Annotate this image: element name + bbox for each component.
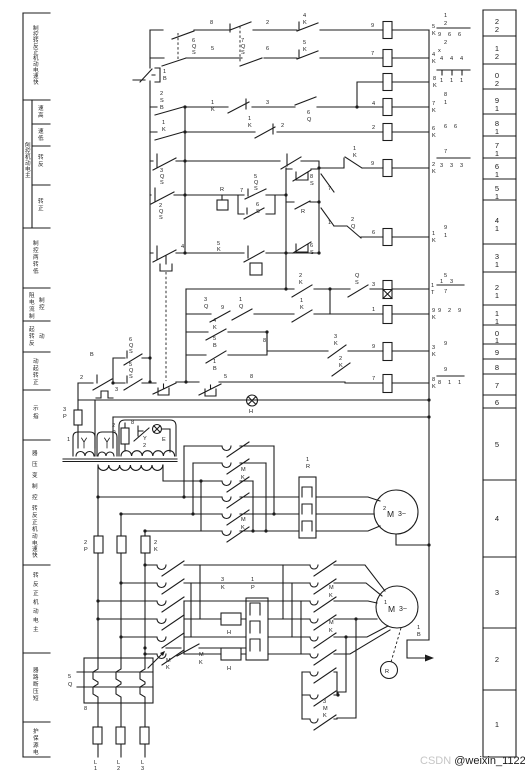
- svg-text:转: 转: [38, 153, 44, 161]
- contact 4K: [297, 22, 318, 31]
- label L1: [94, 760, 97, 772]
- svg-text:1: 1: [417, 625, 420, 631]
- svg-text:8: 8: [263, 338, 266, 344]
- coil 5K: [383, 22, 392, 39]
- foot switch contact rung8: [93, 375, 113, 398]
- svg-text:K: K: [432, 238, 436, 244]
- label 1K between rungs: [162, 120, 166, 133]
- svg-text:E: E: [162, 437, 166, 443]
- svg-text:1: 1: [162, 120, 165, 126]
- svg-text:P: P: [112, 430, 116, 436]
- svg-text:K: K: [339, 363, 343, 369]
- label 4K: [303, 13, 307, 26]
- svg-text:M: M: [241, 517, 246, 523]
- reversing link vertical 2: [190, 583, 192, 637]
- svg-text:9: 9: [444, 341, 447, 347]
- svg-text:速: 速: [32, 546, 38, 553]
- svg-text:反: 反: [33, 580, 39, 588]
- label coil 8K: [433, 76, 437, 89]
- svg-text:机: 机: [33, 598, 39, 606]
- motor line D y619: [98, 615, 377, 718]
- wire rung11: [186, 313, 429, 315]
- svg-text:K: K: [300, 305, 304, 311]
- svg-text:1: 1: [444, 233, 447, 239]
- svg-text:4: 4: [432, 52, 435, 58]
- svg-text:2: 2: [112, 423, 115, 429]
- label 2KM: [241, 467, 246, 481]
- svg-text:主: 主: [33, 625, 39, 633]
- svg-text:K: K: [433, 83, 437, 89]
- secondary feed line y497: [98, 496, 299, 498]
- svg-text:1: 1: [67, 437, 70, 443]
- svg-text:5: 5: [444, 273, 447, 279]
- chain rail vertical: [285, 168, 287, 289]
- zone 7: [495, 381, 499, 390]
- svg-text:Y: Y: [143, 436, 147, 442]
- svg-text:P: P: [251, 585, 255, 591]
- riser rung12 to rung11: [329, 289, 331, 314]
- bus L1 left vertical: [149, 30, 151, 382]
- svg-text:P: P: [63, 414, 67, 420]
- svg-text:3: 3: [450, 279, 453, 285]
- svg-text:转: 转: [33, 571, 39, 579]
- svg-text:阻: 阻: [29, 291, 35, 299]
- label MK bypass: [199, 652, 204, 666]
- wire rung9: [186, 332, 267, 355]
- svg-text:1: 1: [372, 307, 375, 313]
- svg-text:7: 7: [432, 101, 435, 107]
- dashed link 7QS: [239, 26, 241, 63]
- svg-text:Q: Q: [307, 117, 312, 123]
- dot L1 358: [111, 356, 151, 384]
- svg-text:1: 1: [495, 104, 499, 113]
- branch contact R level: [286, 201, 319, 209]
- label 6QS: [192, 38, 197, 56]
- svg-text:快: 快: [33, 78, 39, 86]
- svg-text:机: 机: [32, 525, 38, 533]
- svg-text:2: 2: [80, 375, 83, 381]
- label coil 1K: [432, 231, 436, 244]
- svg-text:正: 正: [33, 379, 39, 386]
- label 6QS left: [129, 337, 134, 355]
- svg-text:K: K: [432, 384, 436, 390]
- svg-text:M: M: [323, 706, 328, 712]
- stop button 1 rung8: [153, 383, 176, 395]
- contact 3KM row6: [222, 527, 249, 542]
- wire rung14: [150, 226, 429, 253]
- svg-text:M: M: [329, 585, 334, 591]
- svg-text:CSDN @weixin_112233: CSDN @weixin_112233: [420, 755, 525, 767]
- svg-text:6: 6: [432, 126, 435, 132]
- zone 14: [495, 216, 499, 233]
- coil 9K: [383, 306, 392, 324]
- zone 11: [495, 309, 499, 326]
- svg-text:H: H: [227, 666, 231, 672]
- svg-text:2: 2: [448, 308, 451, 314]
- wire rung8 bottom control line: [78, 382, 429, 383]
- svg-text:1: 1: [440, 279, 443, 285]
- svg-text:1: 1: [495, 224, 499, 233]
- svg-text:3: 3: [450, 163, 453, 169]
- svg-text:6: 6: [495, 398, 499, 407]
- svg-text:6: 6: [310, 243, 313, 249]
- contact 2QS mid rung17: [281, 154, 301, 169]
- label: control transformer / fast motor supply: [32, 450, 38, 559]
- svg-text:H: H: [249, 409, 253, 415]
- svg-text:转: 转: [33, 260, 39, 268]
- svg-text:7: 7: [444, 289, 447, 295]
- connector plug 2: [97, 432, 117, 456]
- svg-text:3: 3: [115, 387, 118, 393]
- drop x95: [94, 400, 96, 448]
- svg-text:5: 5: [303, 40, 306, 46]
- branch travel switch 6S: [293, 242, 311, 253]
- tacho generator BR: [381, 662, 398, 679]
- svg-text:1: 1: [495, 127, 499, 136]
- secondary lead left: [97, 465, 99, 497]
- svg-text:M: M: [387, 509, 394, 519]
- svg-text:S: S: [254, 186, 258, 192]
- label L3: [141, 760, 144, 772]
- svg-text:2: 2: [444, 40, 447, 46]
- svg-text:控: 控: [39, 303, 45, 311]
- local lighting group box: [119, 420, 176, 456]
- svg-text:动: 动: [33, 358, 39, 365]
- contact 1K NC rung18: [255, 124, 275, 138]
- svg-text:K: K: [303, 47, 307, 53]
- svg-text:6: 6: [444, 124, 447, 130]
- svg-text:3: 3: [460, 163, 463, 169]
- label 1K rung17: [353, 146, 357, 159]
- svg-text:2: 2: [154, 540, 157, 546]
- svg-text:R: R: [220, 187, 224, 193]
- brake contact row 719: [302, 715, 337, 730]
- label 6S: [310, 243, 314, 256]
- fuse 1FU-1: [94, 536, 103, 657]
- svg-text:P: P: [84, 547, 88, 553]
- svg-text:H: H: [227, 630, 231, 636]
- wire rung19: [150, 106, 429, 108]
- label 1SB: [163, 69, 167, 82]
- lamp EL: [153, 425, 171, 453]
- svg-text:1: 1: [450, 78, 453, 84]
- svg-text:1: 1: [163, 69, 166, 75]
- label 4KM upper: [329, 585, 334, 599]
- svg-text:短: 短: [33, 694, 39, 702]
- svg-text:1: 1: [248, 116, 251, 122]
- secondary lead right: [163, 465, 201, 481]
- svg-text:制: 制: [33, 239, 39, 247]
- svg-text:6: 6: [266, 46, 269, 52]
- label 1R: [306, 457, 310, 470]
- svg-text:S: S: [192, 50, 196, 56]
- label: forward start: [33, 358, 39, 386]
- arrowhead: [425, 655, 434, 662]
- drop fuse feed x145: [144, 531, 146, 536]
- label 5B rung10: [213, 336, 217, 349]
- svg-text:K: K: [241, 475, 245, 481]
- motor 2M feeds: [316, 497, 380, 531]
- motor 1M: [376, 586, 418, 628]
- svg-text:机: 机: [33, 54, 39, 62]
- chain vertical x319: [318, 168, 320, 253]
- label QS rung12: [355, 273, 360, 286]
- contact 2KM row2: [193, 459, 266, 474]
- label: forward: [38, 197, 44, 212]
- label 6Q: [307, 110, 312, 123]
- zone 1: [495, 720, 499, 729]
- svg-text:K: K: [221, 585, 225, 591]
- svg-text:动: 动: [33, 608, 39, 615]
- wire rung18: [150, 131, 429, 133]
- svg-text:反: 反: [29, 339, 35, 347]
- wire rung20 branch: [357, 82, 429, 107]
- transformer secondary winding: [98, 465, 163, 470]
- contact 5QS lower: [124, 376, 142, 390]
- motor line B y583: [121, 579, 382, 596]
- svg-text:流: 流: [29, 305, 35, 313]
- contact 1B rung9: [206, 351, 226, 363]
- svg-text:K: K: [432, 169, 436, 175]
- phase line y514: [121, 513, 299, 515]
- svg-text:K: K: [432, 133, 436, 139]
- svg-text:转: 转: [33, 371, 39, 379]
- svg-text:示: 示: [33, 405, 39, 412]
- coil 4K: [383, 50, 392, 67]
- svg-text:1: 1: [458, 380, 461, 386]
- label: short-circuit breaker: [33, 667, 39, 702]
- transformer primary winding group3: [121, 450, 175, 456]
- label 5QS left: [129, 362, 134, 380]
- wire rung12: [186, 288, 429, 290]
- label 4K rung11: [213, 318, 217, 331]
- switch pole 3: [140, 658, 145, 703]
- wire rung17: [150, 158, 429, 168]
- svg-text:正: 正: [38, 205, 44, 212]
- svg-text:机: 机: [25, 153, 31, 161]
- svg-text:动: 动: [32, 533, 38, 540]
- crossref table coil 9K: [438, 308, 461, 314]
- label 5K: [303, 40, 307, 53]
- contact 7QS-1: [230, 22, 251, 32]
- label 1B rung9: [213, 359, 217, 372]
- svg-text:S: S: [256, 209, 260, 215]
- svg-text:动: 动: [25, 160, 31, 167]
- contactor loop vertical right1: [273, 446, 275, 514]
- pushbutton 1SB in bus: [133, 68, 160, 82]
- svg-text:控: 控: [32, 493, 38, 501]
- svg-text:1: 1: [94, 766, 97, 772]
- label: fast motor fwd/rev control: [33, 24, 39, 86]
- label 2FU: [112, 423, 116, 436]
- svg-text:1: 1: [448, 380, 451, 386]
- thermal relay 1FR block: [246, 598, 268, 660]
- label: supply protection: [33, 727, 39, 756]
- svg-text:S: S: [241, 50, 245, 56]
- contact 3QS: [153, 154, 176, 170]
- svg-text:4: 4: [181, 244, 184, 250]
- contact 3KM row5: [222, 510, 249, 525]
- svg-text:低: 低: [38, 134, 44, 142]
- label 2Q: [351, 217, 356, 230]
- svg-text:B: B: [160, 105, 164, 111]
- reversing link vertical 3: [183, 601, 185, 654]
- label coil 4K: [432, 52, 436, 65]
- brake group left rail: [301, 672, 303, 719]
- sub rail vertical: [185, 289, 187, 382]
- svg-text:S: S: [129, 374, 133, 380]
- svg-text:指: 指: [33, 412, 39, 420]
- cross link vertical c: [300, 601, 302, 654]
- svg-text:8: 8: [438, 380, 441, 386]
- left function-label column frame: [23, 13, 50, 757]
- right zone-number column frame: [483, 10, 516, 757]
- fuse 3FU drop: [74, 383, 82, 448]
- zone 9: [495, 348, 499, 357]
- switch handle arrow: [148, 652, 164, 668]
- svg-text:器: 器: [32, 450, 38, 457]
- contact 5K: [297, 50, 318, 59]
- contact 2K rung12: [292, 285, 312, 297]
- svg-text:2: 2: [351, 217, 354, 223]
- transformer core: [63, 459, 177, 462]
- svg-text:R: R: [385, 669, 389, 675]
- label 4KM lower: [329, 620, 334, 634]
- svg-text:刨: 刨: [25, 141, 31, 149]
- svg-text:2: 2: [143, 443, 146, 449]
- svg-text:S: S: [310, 181, 314, 187]
- svg-text:9: 9: [438, 308, 441, 314]
- contact 3K rung10: [328, 345, 346, 358]
- svg-text:1: 1: [460, 78, 463, 84]
- svg-text:6: 6: [458, 32, 461, 38]
- svg-text:两: 两: [33, 254, 39, 261]
- supply fuse 2: [116, 727, 125, 744]
- zone 21: [495, 44, 499, 61]
- svg-text:R: R: [301, 209, 305, 215]
- svg-text:电: 电: [33, 66, 39, 74]
- svg-text:1: 1: [444, 100, 447, 106]
- zone 16: [495, 162, 499, 179]
- switch crossbar 1: [77, 671, 153, 673]
- svg-text:S: S: [355, 280, 359, 286]
- zone 22: [495, 17, 499, 34]
- svg-text:T: T: [431, 290, 435, 296]
- zone 5: [495, 440, 499, 449]
- svg-text:B: B: [213, 343, 217, 349]
- svg-text:B: B: [163, 76, 167, 82]
- cross link vertical b: [291, 583, 293, 637]
- svg-text:9: 9: [221, 305, 224, 311]
- svg-text:1: 1: [213, 359, 216, 365]
- zone 20: [495, 71, 499, 88]
- label 3KM brake: [323, 699, 328, 719]
- coil 8K: [383, 74, 392, 91]
- svg-text:3~: 3~: [398, 511, 406, 518]
- svg-text:电: 电: [33, 616, 39, 624]
- fuse 1FU-2: [117, 536, 126, 657]
- svg-text:6: 6: [256, 202, 259, 208]
- svg-text:1: 1: [251, 577, 254, 583]
- label 1K rung11: [300, 298, 304, 311]
- watermark: [420, 755, 525, 767]
- svg-text:保: 保: [33, 734, 39, 742]
- svg-text:K: K: [323, 713, 327, 719]
- motor 2M return: [396, 534, 429, 545]
- contact 7QS-2: [240, 58, 262, 66]
- contact 5QS rung16: [245, 189, 266, 199]
- svg-text:K: K: [329, 593, 333, 599]
- crossref table coil 1T: [440, 273, 453, 285]
- svg-text:控: 控: [33, 246, 39, 254]
- label motor 1M: [384, 600, 407, 614]
- contactor loop vertical left2: [192, 463, 194, 514]
- contact 2Q to coil 1K: [347, 226, 361, 238]
- label 8S: [310, 174, 314, 187]
- svg-text:8: 8: [84, 706, 87, 712]
- svg-text:转: 转: [38, 197, 44, 205]
- svg-text:K: K: [329, 628, 333, 634]
- svg-text:正: 正: [33, 590, 39, 597]
- svg-text:B: B: [417, 632, 421, 638]
- svg-text:2: 2: [160, 91, 163, 97]
- label 5K rung14: [217, 241, 221, 253]
- svg-text:B: B: [90, 352, 94, 358]
- svg-text:K: K: [154, 547, 158, 553]
- transformer primary winding group2: [98, 452, 114, 456]
- label: main motor fwd/rev: [33, 571, 39, 633]
- svg-text:K: K: [248, 123, 252, 129]
- svg-text:5: 5: [213, 336, 216, 342]
- svg-text:2: 2: [495, 52, 499, 61]
- svg-text:起: 起: [29, 326, 35, 333]
- svg-text:3: 3: [323, 699, 326, 705]
- svg-text:K: K: [432, 315, 436, 321]
- label: high speed: [38, 105, 44, 119]
- bypass wire from switch: [166, 644, 246, 656]
- label coil 9K: [432, 308, 436, 321]
- label coil 7K: [432, 101, 436, 114]
- coil 8A: [383, 375, 392, 393]
- junction dots ladder: [148, 105, 358, 383]
- motor line F y654: [145, 630, 390, 665]
- svg-text:6: 6: [307, 110, 310, 116]
- svg-text:制: 制: [33, 24, 39, 32]
- svg-text:低: 低: [33, 267, 39, 275]
- svg-text:1: 1: [495, 291, 499, 300]
- svg-text:正: 正: [33, 49, 39, 56]
- svg-text:电: 电: [29, 298, 35, 306]
- supply fuse 1: [93, 727, 102, 744]
- svg-text:7: 7: [495, 381, 499, 390]
- label: reverse start: [29, 326, 45, 347]
- contact pair rung11: [232, 309, 252, 320]
- svg-text:M: M: [388, 604, 395, 614]
- svg-text:1: 1: [211, 100, 214, 106]
- label 7QS: [241, 38, 246, 56]
- rail lamp line: [78, 399, 429, 401]
- svg-text:M: M: [199, 652, 204, 658]
- svg-text:1: 1: [495, 192, 499, 201]
- crossref table coil 8K: [437, 70, 470, 75]
- zone 13: [495, 252, 499, 269]
- label 3K rung10: [334, 334, 338, 347]
- svg-text:7: 7: [240, 188, 243, 194]
- junction dots power: [96, 398, 430, 696]
- label: main motor control (outer): [25, 141, 31, 179]
- svg-text:1: 1: [328, 220, 331, 226]
- svg-text:8: 8: [444, 92, 447, 98]
